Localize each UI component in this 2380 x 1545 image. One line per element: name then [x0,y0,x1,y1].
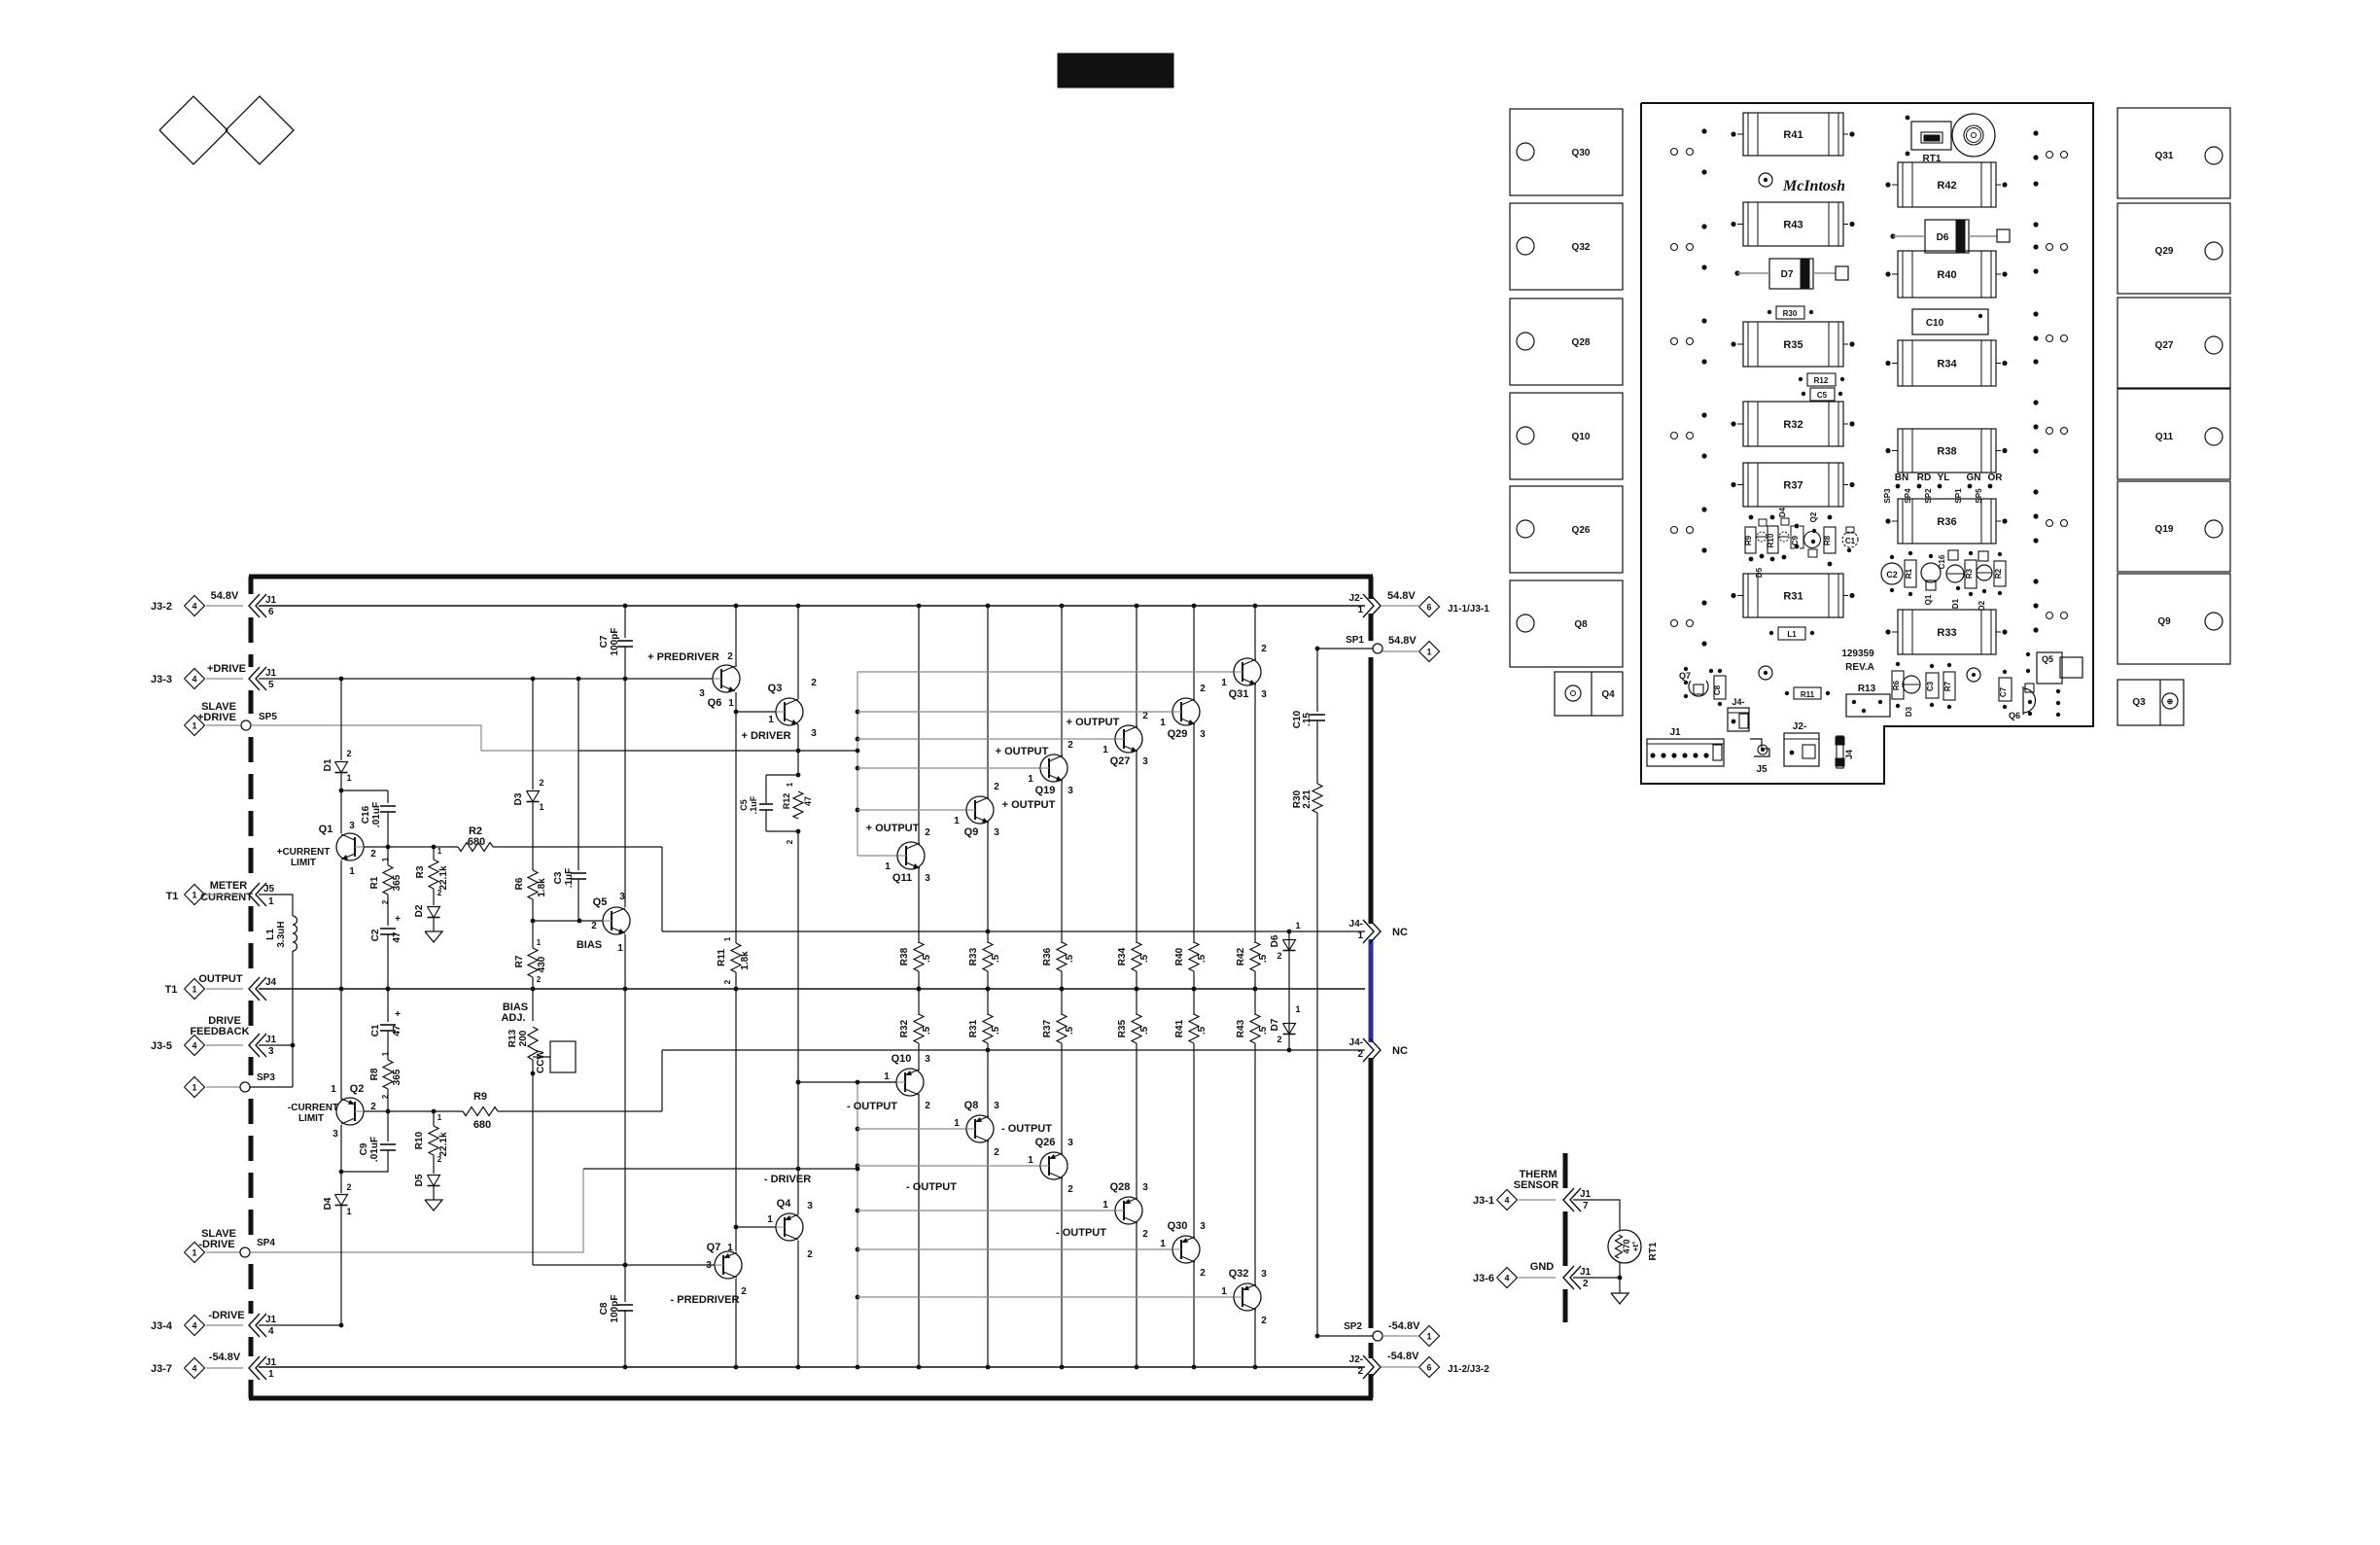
svg-text:SP4: SP4 [257,1238,275,1248]
pcb diode D2 [1977,565,1992,580]
svg-text:.5: .5 [1258,954,1269,963]
svg-text:R30: R30 [1783,309,1798,318]
svg-text:1: 1 [1028,1155,1033,1166]
svg-text:J2-: J2- [1349,1354,1363,1365]
wire R31 to output bus [987,989,989,1015]
svg-text:2: 2 [1277,1035,1281,1044]
transistor Q19 +output [1040,755,1067,782]
pcb pad Q4 [1555,672,1623,716]
resistor R9 680 [463,1107,498,1116]
wire C9 to Q2 emitter node [341,1150,388,1172]
capacitor C9 .01uF [387,1111,389,1141]
svg-text:C5: C5 [739,799,749,811]
svg-text:3: 3 [1142,756,1148,767]
wire R34 to output bus [1136,971,1137,989]
transistor Q6 +predriver [713,665,740,692]
svg-text:4: 4 [192,602,196,612]
svg-text:D2: D2 [414,904,425,917]
pcb resistor R30 [1776,306,1804,319]
svg-text:R33: R33 [1937,627,1956,639]
svg-text:+: + [395,914,401,925]
svg-text:3: 3 [994,1101,999,1111]
pcb pad Q19 [2117,481,2230,572]
svg-text:J3-5: J3-5 [151,1040,172,1052]
svg-text:D3: D3 [1905,706,1913,717]
svg-text:C10: C10 [1926,318,1944,329]
svg-text:3: 3 [1067,786,1073,796]
wire Q11 emitter down [918,867,920,943]
wire J4-1 NC row [662,931,1365,932]
svg-text:R6: R6 [1892,680,1901,690]
svg-text:R11: R11 [1801,690,1815,699]
svg-text:R33: R33 [968,947,979,966]
svg-text:47: 47 [803,796,813,806]
wire driver column down to Q10 base row [797,831,799,1082]
pcb right pad columns [2033,130,2038,135]
wire C3 column [577,677,581,682]
svg-text:1: 1 [767,1214,773,1225]
svg-text:REV.A: REV.A [1845,662,1874,673]
pcb resistor R11 [1794,687,1821,699]
svg-text:C3: C3 [1926,681,1935,691]
pcb transistor Q6 [2022,686,2024,715]
svg-text:1: 1 [1221,1286,1227,1297]
svg-text:J3-2: J3-2 [151,601,172,613]
pcb capacitor C5 [1810,388,1835,401]
pcb resistor R32 [1743,402,1843,446]
svg-text:3: 3 [619,892,625,902]
connector J1-2 [1563,1266,1574,1289]
svg-text:C2: C2 [1886,570,1898,579]
wire Q19 collector to 54.8V rail [1061,606,1063,756]
svg-text:2: 2 [370,1102,376,1112]
svg-text:D6: D6 [1270,934,1280,947]
svg-text:2.21: 2.21 [1302,790,1312,809]
svg-text:R42: R42 [1236,947,1246,966]
svg-text:OR: OR [1988,473,2004,483]
svg-text:OUTPUT: OUTPUT [198,973,243,985]
pcb pad Q8 [1510,580,1623,667]
wire base feed Q27 [857,738,1115,740]
svg-text:SP3: SP3 [257,1072,275,1083]
pcb transistor Q5 pad [2037,652,2062,684]
wire C2 to output bus [387,934,389,989]
pcb resistor R9 [1745,527,1756,553]
svg-text:R6: R6 [514,877,525,890]
svg-text:2: 2 [537,975,542,984]
pcb transistor Q7 [1689,681,1708,696]
wire SP4 to -driver bus [250,1169,583,1252]
svg-text:4: 4 [1504,1196,1509,1206]
wire +driver row [578,750,857,752]
svg-text:Q2: Q2 [350,1083,365,1095]
ground symbol [1619,1278,1621,1293]
svg-text:1: 1 [192,721,196,731]
svg-text:Q28: Q28 [1110,1181,1131,1193]
connector J2-2 -54.8V out [1370,1355,1381,1379]
svg-text:- OUTPUT: - OUTPUT [847,1101,897,1112]
pcb mounting pad 3 [1967,668,1980,682]
wire Q5 emitter to output bus [624,934,626,989]
svg-text:R32: R32 [1783,419,1802,431]
svg-text:1: 1 [728,698,734,709]
svg-text:.1uF: .1uF [749,795,758,814]
pcb transistor Q2 [1804,532,1821,548]
pcb resistor R34 [1898,340,1996,386]
svg-text:GN: GN [1967,473,1981,483]
svg-text:2: 2 [346,1182,351,1192]
svg-text:680: 680 [468,836,485,848]
svg-text:J1: J1 [265,668,277,679]
svg-text:Q32: Q32 [1229,1268,1249,1280]
svg-text:LIMIT: LIMIT [298,1113,324,1124]
schematic border bottom [249,1396,1373,1401]
diode D6 [1283,940,1296,951]
svg-text:J3-3: J3-3 [151,674,172,685]
transistor Q30 -output [1172,1236,1200,1263]
resistor R37 .5 [1057,1014,1067,1043]
connector J1-3 [249,1034,260,1057]
resistor R8 365 [387,1031,389,1060]
svg-text:R7: R7 [1943,681,1952,691]
svg-text:Q26: Q26 [1572,525,1591,536]
pcb connector J2- [1784,733,1819,766]
wire base feed Q8 [857,1128,966,1130]
wire R38 to output bus [918,971,920,989]
pcb resistor R36 [1898,499,1996,544]
svg-text:R12: R12 [1814,376,1829,385]
svg-text:Q11: Q11 [2155,432,2174,442]
svg-text:-CURRENT: -CURRENT [288,1103,338,1113]
pcb connector J4- [1728,708,1749,731]
wire C1 branch from bus [387,989,389,1022]
svg-text:Q29: Q29 [1168,728,1188,740]
svg-text:Q10: Q10 [892,1053,912,1065]
wire +DRIVE [259,678,713,680]
wire J5 to L1 [259,895,293,916]
wire -driver row [583,1168,857,1170]
diode D1 [335,762,348,773]
svg-text:1: 1 [1221,678,1227,688]
pcb resistor R43 [1743,202,1843,246]
diode D7 [1283,1024,1296,1035]
svg-text:Q5: Q5 [2042,654,2053,664]
svg-text:1: 1 [768,715,774,725]
svg-text:SP5: SP5 [1975,488,1983,504]
svg-text:2: 2 [1142,1229,1148,1240]
svg-text:YL: YL [1938,473,1950,483]
svg-text:R9: R9 [473,1091,487,1103]
svg-text:Q2: Q2 [1809,511,1818,522]
svg-text:J4-: J4- [1732,697,1744,707]
transistor Q9 +output [966,796,994,824]
svg-text:J1-2/J3-2: J1-2/J3-2 [1448,1364,1489,1375]
svg-text:R41: R41 [1174,1019,1185,1037]
svg-text:1: 1 [381,857,390,861]
svg-text:R34: R34 [1117,947,1128,966]
svg-text:D4: D4 [1778,507,1787,517]
svg-text:1: 1 [268,896,274,907]
potentiometer R13 200 bias adj [528,1027,538,1060]
svg-text:47: 47 [392,931,402,943]
svg-text:3: 3 [268,1046,274,1057]
svg-text:.5: .5 [1197,1026,1207,1035]
transistor Q29 +output [1172,698,1200,725]
svg-text:3: 3 [699,688,705,699]
transistor Q26 -output [1040,1152,1067,1179]
resistor R2 680 [458,843,493,852]
svg-text:2: 2 [1261,1316,1267,1326]
svg-text:- OUTPUT: - OUTPUT [906,1181,957,1193]
transistor Q28 -output [1115,1197,1142,1224]
svg-text:J1: J1 [1580,1267,1592,1278]
wire base feed Q29 [857,711,1172,713]
transistor Q1 +current limit [336,833,364,860]
resistor R32 .5 [914,1014,924,1043]
svg-text:Q29: Q29 [2155,246,2174,257]
resistor R33 .5 [983,942,993,971]
svg-text:.5: .5 [1065,1026,1075,1035]
svg-text:J3-7: J3-7 [151,1363,172,1375]
wire base feed Q31 [857,671,1234,673]
logo diamonds top-left [159,96,227,164]
svg-text:3: 3 [925,1054,930,1065]
wire Q32 collector up [1254,1043,1256,1285]
svg-text:J3-1: J3-1 [1473,1195,1494,1207]
svg-text:4: 4 [192,1321,196,1331]
pcb capacitor C8 [1714,676,1726,699]
svg-text:McIntosh: McIntosh [1782,178,1845,194]
svg-text:+ OUTPUT: + OUTPUT [1002,799,1056,811]
svg-text:- OUTPUT: - OUTPUT [1056,1227,1106,1239]
wire R13 down to -predriver row [532,1060,534,1265]
svg-text:LIMIT: LIMIT [291,858,316,868]
pcb diode D6 [1925,220,1969,253]
pcb connector J5 [1750,739,1769,756]
svg-text:2: 2 [723,979,732,984]
wire Q28 collector up [1136,1043,1137,1199]
svg-text:L1: L1 [1787,630,1797,639]
wire R42 to output bus [1254,971,1256,989]
capacitor C8 100pF [617,1304,633,1306]
transistor Q31 +output [1234,658,1261,685]
svg-text:+CURRENT: +CURRENT [277,847,331,858]
svg-text:Q30: Q30 [1168,1220,1188,1232]
svg-text:R38: R38 [1937,446,1956,458]
wire Q2 column from output bus [340,989,342,1100]
svg-text:J5: J5 [263,884,275,895]
svg-text:7: 7 [1583,1201,1589,1211]
svg-text:3.3uH: 3.3uH [276,921,287,947]
svg-text:R35: R35 [1783,339,1802,351]
svg-text:D7: D7 [1270,1018,1280,1031]
svg-text:J5: J5 [1756,764,1767,775]
wire C3 to bias node [577,879,579,921]
wire C7 column from rail [623,604,628,609]
svg-text:J4: J4 [265,977,277,988]
svg-text:Q5: Q5 [593,896,608,908]
pcb pad Q11 [2117,389,2230,479]
wire Q3 collector to rail [797,606,799,699]
schematic border right segments [1369,577,1374,599]
svg-text:J1: J1 [265,595,277,606]
svg-text:1: 1 [346,773,351,783]
svg-text:6: 6 [1426,1363,1431,1373]
wire R3 to D2 [433,889,435,905]
pcb speaker pad [1952,114,1995,157]
svg-text:R13: R13 [1858,684,1876,694]
svg-text:1: 1 [885,861,891,872]
pcb resistor R10 [1767,526,1778,553]
svg-text:1: 1 [1160,718,1166,728]
wire R7 to output bus [532,977,534,1021]
pcb resistor R37 [1743,463,1843,507]
svg-text:SP3: SP3 [1883,488,1892,504]
resistor R42 .5 [1250,942,1260,971]
svg-text:NC: NC [1392,1045,1408,1057]
svg-text:J3-4: J3-4 [151,1320,173,1332]
svg-text:2: 2 [539,778,543,788]
svg-text:SP2: SP2 [1344,1321,1362,1332]
resistor R35 .5 [1132,1014,1141,1043]
svg-text:- PREDRIVER: - PREDRIVER [671,1294,740,1306]
svg-text:Q26: Q26 [1035,1137,1056,1148]
diode D2 [428,907,440,918]
svg-text:1: 1 [727,1243,733,1253]
pcb pad Q26 [1510,486,1623,573]
svg-text:R2: R2 [1994,568,2003,579]
connector J5-1 [249,883,260,906]
wire SP3 [250,1086,293,1088]
pcb resistor R38 [1898,429,1996,473]
svg-text:Q3: Q3 [768,683,783,694]
svg-text:SP1: SP1 [1346,635,1364,646]
svg-text:1: 1 [331,1084,336,1095]
pcb resistor R7 [1943,672,1955,700]
svg-text:1: 1 [1102,1200,1108,1211]
pcb diode D3 [1903,676,1920,693]
capacitor C3 .1uF [571,872,586,874]
pcb capacitor C7 [1999,678,2012,701]
svg-text:R31: R31 [1783,591,1802,603]
svg-text:1: 1 [1295,1004,1300,1014]
resistor R3 22.1k [429,860,438,889]
wire Q27 emitter down [1136,751,1137,943]
pcb pad Q9 [2117,574,2230,664]
pcb resistor R8 [1824,527,1836,553]
svg-text:Q4: Q4 [1601,689,1615,700]
svg-text:1: 1 [1160,1239,1166,1249]
svg-text:C1: C1 [1845,537,1856,545]
wire driver column through -driver row to Q4 [797,1082,799,1214]
resistor R31 .5 [983,1014,993,1043]
wire L1 down to feedback node [292,951,294,1087]
svg-text:2: 2 [1357,1049,1363,1060]
diode D5 [428,1176,440,1186]
wire Q6 emitter down to R11 [735,692,737,943]
pcb thermistor RT1 [1911,122,1951,150]
svg-text:200: 200 [518,1030,529,1046]
transistor Q2 -current limit [336,1098,364,1125]
svg-text:3: 3 [706,1260,712,1271]
svg-text:1: 1 [539,802,543,812]
svg-text:54.8V: 54.8V [1387,590,1416,602]
svg-text:Q31: Q31 [1229,688,1249,700]
svg-text:+t°: +t° [1631,1242,1640,1252]
wire base feed Q32 [857,1296,1234,1298]
svg-text:C16: C16 [361,805,371,824]
wire Q2 emitter down [340,1125,342,1193]
svg-text:1.8k: 1.8k [740,951,751,970]
svg-text:R37: R37 [1783,480,1802,492]
wire Q10 base row from driver column [798,1081,896,1083]
resistor R1 365 [387,847,389,865]
pcb mounting pad [1759,173,1772,187]
svg-text:.5: .5 [1065,954,1075,963]
wire Q31 collector to 54.8V rail [1254,606,1256,660]
svg-text:D4: D4 [323,1197,333,1210]
svg-text:.5: .5 [991,954,1001,963]
svg-text:R36: R36 [1042,947,1053,966]
svg-text:C9: C9 [359,1142,369,1155]
svg-text:3: 3 [1261,689,1267,700]
svg-text:2: 2 [591,921,597,931]
pcb diode D2b [1779,532,1789,542]
resistor R43 .5 [1250,1014,1260,1043]
svg-text:3: 3 [1067,1138,1073,1148]
svg-text:2: 2 [346,749,351,758]
pcb resistor R2 [1994,561,2006,586]
schematic border top [249,575,1373,579]
svg-text:C16: C16 [1938,554,1946,569]
wire Q29 collector to 54.8V rail [1193,606,1195,700]
svg-text:365: 365 [392,1069,402,1085]
wire R10 to D5 [433,1155,435,1174]
svg-text:CCW: CCW [536,1050,546,1073]
svg-text:2: 2 [727,651,733,662]
transistor Q8 -output [966,1115,994,1142]
svg-text:2: 2 [1357,1366,1363,1377]
svg-text:R9: R9 [1744,535,1753,545]
svg-text:1: 1 [723,936,732,941]
svg-text:FEEDBACK: FEEDBACK [190,1026,249,1037]
svg-text:R43: R43 [1236,1019,1246,1037]
wire Q28 emitter to -54.8V rail [1136,1222,1137,1367]
node SP3 [185,1077,205,1098]
svg-text:1: 1 [437,1113,442,1122]
thermistor RT1 470 [1608,1230,1641,1263]
svg-text:3: 3 [807,1201,813,1211]
wire C16 branch top [341,790,388,791]
wire R10 branch [432,1109,437,1114]
svg-text:R1: R1 [369,876,380,889]
wire Q26 emitter to -54.8V rail [1061,1177,1063,1367]
wire Q8 emitter to -54.8V rail [987,1141,989,1367]
svg-text:+: + [395,1009,401,1020]
svg-text:.1uF: .1uF [564,868,575,889]
svg-text:R10: R10 [1767,533,1775,547]
svg-text:SENSOR: SENSOR [1514,1179,1559,1191]
svg-text:1: 1 [346,1207,351,1216]
connector J4-2 NC [1370,1038,1381,1062]
wire SP5 to driver bus [251,725,578,751]
svg-text:1: 1 [1357,931,1363,941]
svg-text:.5: .5 [1139,954,1150,963]
svg-text:1: 1 [192,1248,196,1258]
transistor Q5 bias [603,907,630,934]
svg-text:C1: C1 [370,1024,381,1036]
svg-text:J1-1/J3-1: J1-1/J3-1 [1448,604,1489,614]
